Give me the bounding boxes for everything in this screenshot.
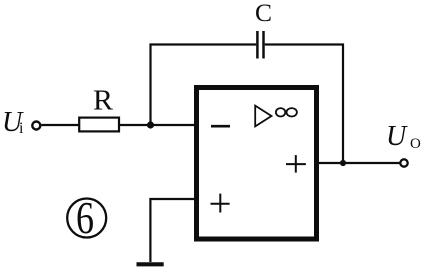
op-amp non-inverting input plus sign xyxy=(211,194,230,213)
svg-text:i: i xyxy=(19,120,24,137)
svg-text:R: R xyxy=(93,86,113,117)
wire capacitor to output node xyxy=(265,45,343,161)
op-amp U1 box xyxy=(197,88,317,240)
node Ui input terminal xyxy=(32,122,40,130)
wire resistor to op-amp inverting input xyxy=(120,124,197,126)
op-amp output plus sign xyxy=(286,155,306,173)
op-amp inverting input minus sign xyxy=(211,125,230,128)
node junction dot at inverting input xyxy=(147,121,154,128)
op-amp infinity gain symbol xyxy=(276,108,297,116)
wire non-inverting input to ground xyxy=(150,199,196,262)
capacitor C xyxy=(257,31,263,59)
svg-text:O: O xyxy=(410,136,421,152)
op-amp triangle symbol xyxy=(255,106,271,127)
resistor R xyxy=(79,118,119,132)
label circled 6 figure number xyxy=(67,192,106,243)
svg-text:C: C xyxy=(255,0,272,27)
wire feedback left vertical and top to capacitor xyxy=(151,45,257,126)
wire op-amp output to terminal xyxy=(316,162,400,164)
ground xyxy=(137,262,164,266)
label Uo xyxy=(386,121,421,152)
node Uo output terminal xyxy=(400,159,407,166)
wire input terminal to resistor xyxy=(41,124,79,126)
label Ui xyxy=(2,107,24,138)
svg-text:U: U xyxy=(386,121,408,152)
node junction dot at output xyxy=(340,160,346,166)
svg-text:6: 6 xyxy=(76,192,94,243)
